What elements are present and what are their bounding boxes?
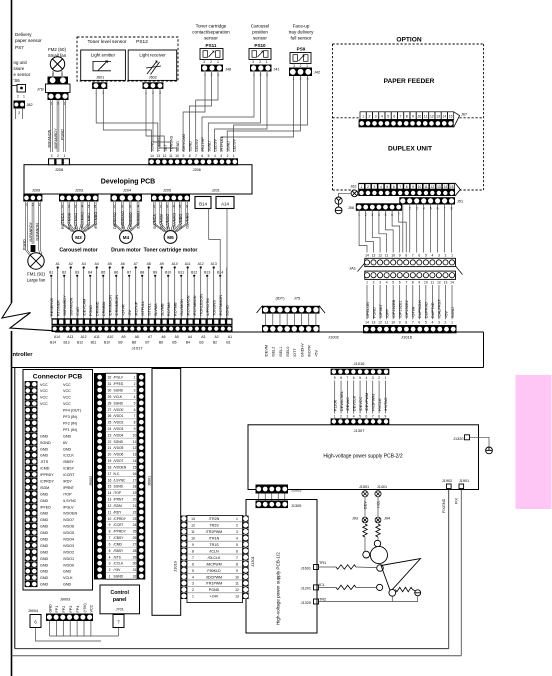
svg-text:13: 13 [133,453,137,457]
label J209 [32,189,40,193]
wire J1320 output [470,437,490,447]
svg-text:TR2S: TR2S [209,524,219,528]
svg-text:A5: A5 [175,335,179,339]
wire ladder J9002 to J9001 with labels [106,373,138,579]
svg-text:17: 17 [133,478,137,482]
label J9001 [147,476,151,486]
svg-text:8: 8 [192,549,194,553]
svg-text:8: 8 [412,281,414,285]
contact on ICL line [377,584,383,590]
wire J48-3 to J206-7 [196,72,218,152]
label J1016 (lower) [354,361,366,366]
svg-text:/DRMMAON: /DRMMAON [108,295,112,316]
wire lower section left inner border [14,368,16,649]
wire page left border (upper) [11,0,13,303]
svg-text:J9002: J9002 [89,476,93,486]
svg-text:TONLED: TONLED [157,136,161,152]
sensor PS6 symbol (partial) [12,85,26,99]
svg-text:M3: M3 [75,235,82,240]
label J1002 [328,335,340,340]
wire FIX vertical [460,489,462,656]
svg-text:B1: B1 [226,341,230,345]
svg-text:/DEVCAM: /DEVCAM [82,299,86,316]
svg-text:9: 9 [236,569,238,573]
svg-text:/ICLN: /ICLN [209,549,219,553]
svg-text:High-voltage power supply PCB-: High-voltage power supply PCB-1/2 [276,552,281,625]
svg-text:FM1 (92): FM1 (92) [27,272,45,277]
transformer main winding circle [370,546,387,563]
svg-text:32: 32 [133,575,137,579]
svg-text:VCC: VCC [63,389,71,393]
svg-text:B6: B6 [114,271,118,275]
wire B14 box to bundle [209,209,221,276]
svg-text:28: 28 [133,549,137,553]
wire J42-3 to J206-1 [234,76,308,152]
svg-text:+5V: +5V [444,311,448,318]
svg-text:9: 9 [412,185,414,189]
svg-text:VCLK: VCLK [63,576,73,580]
label Connector PCB pin names [40,383,81,587]
label DUPLEX UNIT [388,146,432,153]
svg-text:J62: J62 [350,185,356,189]
label PAPER FEEDER [384,78,435,85]
svg-text:B6: B6 [159,341,163,345]
svg-text:A13: A13 [67,335,73,339]
wire page left border (lower) [11,331,13,676]
svg-text:8: 8 [405,253,407,257]
wire J601-2 to J206-14 [103,89,151,152]
svg-text:/VDO7: /VDO7 [63,518,74,522]
svg-text:J1005: J1005 [291,489,301,493]
wire J9004 cable [36,628,102,642]
terminal protective ground pin [335,197,342,204]
svg-text:/RDY: /RDY [114,510,123,514]
svg-text:tray delivery: tray delivery [289,30,314,35]
svg-text:DEV: DEV [364,501,368,509]
svg-text:/VDO4: /VDO4 [114,433,124,437]
svg-text:10: 10 [108,517,112,521]
terminal J1320 TR2 [301,597,327,605]
svg-text:A1: A1 [228,335,232,339]
svg-text:J1201: J1201 [301,587,311,591]
connector J203 [59,194,99,208]
sensor PS10 symbol [249,49,271,65]
svg-text:J1401: J1401 [377,485,387,489]
svg-text:6: 6 [109,542,111,546]
svg-text:3GND: 3GND [189,141,193,152]
wire TR1 with resistor [319,565,377,569]
svg-text:1: 1 [217,60,219,64]
svg-text:7: 7 [134,414,136,418]
svg-text:FP4: FP4 [76,606,80,613]
svg-text:24: 24 [133,523,137,527]
contact TR2 node [389,589,396,596]
pcb high-voltage power supply PCB-2/2 box [248,425,479,490]
wire J76-2 /60FANRDY [54,100,59,152]
connector J62 [350,183,460,196]
svg-text:4: 4 [192,575,194,579]
terminal J1320 [453,435,469,441]
fan FM2 [50,57,64,71]
svg-text:GND: GND [40,499,49,503]
svg-text:4: 4 [431,253,433,257]
label Developing PCB [101,178,155,185]
svg-text:B1: B1 [49,271,53,275]
connector J9002 strip [94,373,106,580]
svg-text:GND: GND [40,563,49,567]
wire J602-2 to J206-11 [153,89,171,152]
svg-text:4: 4 [365,376,367,380]
svg-text:J601: J601 [96,76,104,80]
svg-text:/DEVM: /DEVM [264,345,268,357]
svg-text:22: 22 [108,440,112,444]
svg-text:8: 8 [340,376,342,380]
svg-text:PS10: PS10 [254,43,266,48]
svg-text:position: position [252,30,268,35]
svg-text:/UPROTM: /UPROTM [206,298,210,316]
svg-text:/DEVDC: /DEVDC [359,396,363,411]
connector J1017 row A [52,318,233,325]
svg-text:5: 5 [192,569,194,573]
svg-text:/CMD: /CMD [40,467,50,471]
connector J42 [289,68,320,81]
svg-text:3GND: 3GND [176,141,180,152]
svg-text:ROTMCA: ROTMCA [61,212,65,229]
svg-text:/RTFULL: /RTFULL [220,136,224,151]
svg-text:6: 6 [418,253,420,257]
svg-text:1: 1 [384,376,386,380]
svg-text:10: 10 [424,281,428,285]
sensor light emitter [81,50,126,80]
connector J67 [359,112,468,128]
svg-text:/VDO2: /VDO2 [63,550,74,554]
svg-text:B12: B12 [191,271,197,275]
label OPTION [396,37,422,44]
connector JA1 pin numbers (bottom) [366,281,454,285]
svg-text:5: 5 [134,401,136,405]
resistor on DEV line [363,524,367,537]
svg-text:5: 5 [425,320,427,324]
svg-text:/96FANON: /96FANON [69,297,73,316]
connector J1017 pin labels B14-B1 [50,341,231,345]
svg-text:2: 2 [340,415,342,419]
svg-text:6: 6 [365,415,367,419]
svg-text:B2: B2 [62,271,66,275]
svg-text:5: 5 [392,281,394,285]
svg-text:-5V: -5V [128,310,132,316]
svg-text:23: 23 [133,517,137,521]
svg-text:/LSYNC: /LSYNC [114,478,127,482]
svg-text:PS12: PS12 [136,39,148,45]
wire J48-1 to J206-9 [183,72,205,152]
svg-text:PAPER FEEDER: PAPER FEEDER [384,78,435,85]
svg-text:B10: B10 [104,341,110,345]
svg-text:5: 5 [208,154,210,158]
connector J701 cable 7 [113,615,124,628]
svg-text:1: 1 [451,320,453,324]
svg-text:/SDM: /SDM [40,486,49,490]
svg-text:/TOP: /TOP [114,491,122,495]
svg-text:13: 13 [191,517,195,521]
terminal J1501 DEV [359,485,369,509]
svg-text:8: 8 [406,114,408,118]
terminal J62 frame ground pin [351,190,358,197]
svg-text:15: 15 [449,114,453,118]
connector J206 [148,158,238,172]
svg-text:11: 11 [133,440,137,444]
svg-text:sensor: sensor [253,36,267,41]
svg-text:JA1: JA1 [349,266,357,271]
svg-text:/NOTR: /NOTR [308,345,312,357]
svg-text:J67: J67 [461,113,467,117]
svg-text:23: 23 [108,433,112,437]
svg-text:4: 4 [380,185,382,189]
svg-text:GND: GND [40,557,49,561]
sensor PS9 symbol [290,53,311,69]
svg-text:12: 12 [163,154,167,158]
svg-text:SLVMCB: SLVMCB [159,214,163,229]
svg-text:11: 11 [424,185,428,189]
svg-text:10: 10 [133,433,137,437]
svg-text:/SLVMON: /SLVMON [180,299,184,316]
svg-text:9: 9 [334,376,336,380]
svg-text:10: 10 [391,253,395,257]
svg-text:PF4 (OUT): PF4 (OUT) [63,409,81,413]
svg-text:SGND: SGND [114,440,124,444]
label (IDT) J75 [275,296,301,301]
svg-text:5: 5 [387,114,389,118]
svg-text:+24VA: +24VA [412,306,416,318]
connector J9004 cable 6 [30,615,41,628]
svg-text:/VDO6: /VDO6 [63,525,74,529]
resistor on HCL line [376,524,380,537]
svg-text:GND: GND [40,537,49,541]
svg-text:1: 1 [362,114,364,118]
svg-text:A14: A14 [221,202,229,207]
svg-text:B5: B5 [172,341,176,345]
label J205 [163,189,171,193]
connector J76 [37,77,70,106]
svg-text:/92FANRDY: /92FANRDY [29,221,33,242]
svg-text:6: 6 [353,376,355,380]
svg-text:3: 3 [374,185,376,189]
svg-text:J208: J208 [55,168,63,172]
connector J1016 lower pin numbers [334,376,387,380]
svg-text:/CCRT: /CCRT [63,473,75,477]
connector J206 pin numbers [150,154,235,158]
connector J1002 [262,325,320,333]
resistor to bias terminal [396,587,413,591]
svg-text:DUPRXD: DUPRXD [425,302,429,318]
svg-text:DRMMBO: DRMMBO [129,212,133,229]
svg-text:9: 9 [384,415,386,419]
svg-text:14: 14 [150,154,154,158]
svg-text:SGND: SGND [451,307,455,318]
svg-text:HVCLK: HVCLK [378,398,382,411]
svg-text:/CBSY: /CBSY [63,467,75,471]
svg-text:A4: A4 [188,335,192,339]
svg-text:2: 2 [300,64,302,68]
svg-text:/VDO2: /VDO2 [114,421,124,425]
svg-text:5: 5 [425,253,427,257]
svg-text:GND: GND [48,604,52,613]
svg-text:J701: J701 [116,608,124,612]
svg-text:A6: A6 [121,262,125,266]
svg-text:7: 7 [346,376,348,380]
svg-text:7: 7 [399,185,401,189]
svg-text:PGND: PGND [23,239,27,250]
svg-text:5: 5 [386,185,388,189]
label J201 [212,189,220,193]
svg-text:Toner level sensor: Toner level sensor [88,39,127,45]
svg-text:/CBSY: /CBSY [114,536,125,540]
svg-text:17: 17 [108,472,112,476]
connector J51 [399,197,463,210]
svg-text:4: 4 [134,395,136,399]
terminal J93 [352,517,368,523]
svg-text:10: 10 [175,154,179,158]
label delivery paper sensor PS7 [15,32,42,50]
svg-text:2: 2 [445,320,447,324]
svg-text:13: 13 [108,498,112,502]
svg-text:J48: J48 [225,68,231,72]
svg-text:1: 1 [109,575,111,579]
label FM1 (92) Large fan [27,272,46,283]
svg-text:RTONER: RTONER [56,300,60,316]
svg-text:DRMMA: DRMMA [102,301,106,316]
svg-text:B10: B10 [165,271,171,275]
pcb Connector PCB box [23,370,93,591]
svg-text:18: 18 [133,485,137,489]
svg-text:J1016: J1016 [401,335,413,340]
motor M4 drum motor wires [113,202,141,243]
svg-text:2: 2 [445,253,447,257]
svg-text:SGND: SGND [114,389,124,393]
svg-text:PS7: PS7 [15,45,24,50]
svg-text:A9: A9 [121,335,125,339]
svg-text:10: 10 [418,185,422,189]
svg-text:FP3: FP3 [69,606,73,613]
wire J76-3 PGND [61,100,66,152]
svg-text:2: 2 [52,73,54,77]
svg-text:32: 32 [108,376,112,380]
svg-text:24: 24 [108,427,112,431]
svg-text:J1301: J1301 [250,555,255,567]
svg-text:6V: 6V [63,441,68,445]
label J9004 [28,609,38,613]
svg-text:/OPSET: /OPSET [379,303,383,318]
svg-text:27: 27 [133,542,137,546]
svg-text:13: 13 [444,281,448,285]
terminal J1320 output contact [486,447,493,454]
svg-text:/VDO7: /VDO7 [114,459,124,463]
svg-text:2: 2 [192,588,194,592]
wire J602-3 to J206-10 [160,89,177,152]
svg-text:PGND: PGND [372,307,376,318]
svg-text:+24V: +24V [210,595,219,599]
wire J209 to FM1 with labels [23,202,42,256]
svg-text:.STS: .STS [40,460,49,464]
svg-text:SLVMB: SLVMB [160,303,164,316]
svg-text:GND: GND [40,544,49,548]
svg-text:/STS: /STS [114,555,122,559]
label toner cartridge contact/separation sensor [192,24,230,41]
svg-text:12: 12 [133,446,137,450]
svg-text:7: 7 [400,114,402,118]
svg-text:4: 4 [381,114,383,118]
svg-text:GND: GND [40,512,49,516]
svg-text:/ROTMBON: /ROTMBON [193,295,197,316]
svg-text:/TONLEDON: /TONLEDON [199,294,203,316]
svg-text:18: 18 [108,465,112,469]
svg-text:B7: B7 [127,271,131,275]
svg-text:N.C.: N.C. [114,472,121,476]
svg-text:HCL: HCL [377,500,381,508]
label JA1 [349,263,462,275]
svg-text:/ROTMAO: /ROTMAO [81,212,85,229]
svg-text:GND: GND [40,570,49,574]
svg-text:14: 14 [450,281,454,285]
svg-text:ROTMB: ROTMB [173,302,177,316]
svg-text:12: 12 [437,281,441,285]
svg-text:9: 9 [192,543,194,547]
svg-text:J94: J94 [384,517,390,521]
svg-text:/VDO0: /VDO0 [63,563,74,567]
svg-text:16: 16 [108,478,112,482]
svg-text:/VDOEN: /VDOEN [63,512,77,516]
svg-text:3: 3 [379,281,381,285]
svg-text:/SEL2: /SEL2 [272,347,276,357]
svg-text:7: 7 [192,556,194,560]
motor M5 toner cartridge motor wires [153,202,190,243]
svg-text:1: 1 [361,185,363,189]
svg-text:J75: J75 [294,296,301,301]
svg-text:2: 2 [259,60,261,64]
svg-text:B13: B13 [204,271,210,275]
svg-text:25: 25 [108,421,112,425]
svg-text:PS11: PS11 [206,43,217,48]
svg-text:6: 6 [236,549,238,553]
svg-text:J1320: J1320 [453,437,463,441]
sensor box toner level sensor PS12 (dashed) [77,37,178,81]
svg-text:DEVCLK: DEVCLK [353,395,357,411]
svg-text:12: 12 [235,588,239,592]
transformer primary small contact (HCL) [374,540,380,546]
svg-text:/CCRT: /CCRT [114,523,124,527]
svg-text:9: 9 [182,154,184,158]
svg-text:/TR2PWM: /TR2PWM [206,530,223,534]
svg-text:13: 13 [436,114,440,118]
svg-text:5: 5 [109,549,111,553]
svg-text:ssure: ssure [14,66,25,71]
svg-text:A8: A8 [147,262,151,266]
svg-text:26: 26 [108,414,112,418]
svg-text:J51: J51 [457,200,463,204]
svg-text:/SDM: /SDM [114,504,122,508]
connector J601 [92,82,107,95]
svg-text:J1002: J1002 [328,335,340,340]
wire J9003 bundle to control panel [50,621,119,636]
svg-text:/VDO6: /VDO6 [114,453,124,457]
svg-text:ntroller: ntroller [13,352,34,358]
svg-text:VCLK: VCLK [114,395,123,399]
svg-text:9: 9 [399,253,401,257]
svg-text:VCC: VCC [40,402,48,406]
svg-text:TR2: TR2 [319,597,326,601]
svg-text:/OPP: /OPP [385,308,389,318]
svg-text:/VDO5: /VDO5 [114,446,124,450]
svg-text:1: 1 [334,415,336,419]
